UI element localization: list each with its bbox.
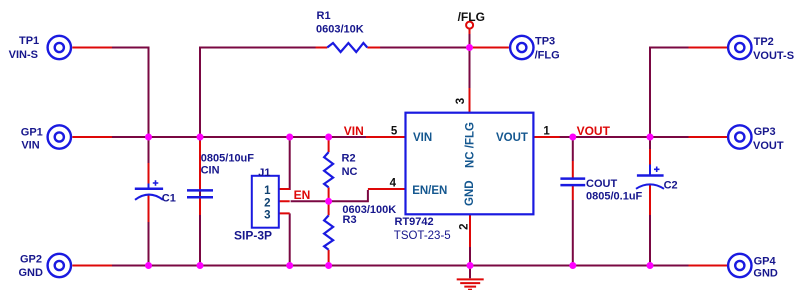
svg-text:0603/10K: 0603/10K bbox=[316, 24, 364, 36]
svg-text:TP2: TP2 bbox=[754, 36, 774, 48]
svg-text:/FLG: /FLG bbox=[535, 50, 560, 62]
svg-text:VOUT-S: VOUT-S bbox=[753, 50, 794, 62]
svg-text:VOUT: VOUT bbox=[753, 140, 784, 152]
svg-text:TSOT-23-5: TSOT-23-5 bbox=[394, 230, 451, 242]
svg-text:TP1: TP1 bbox=[19, 35, 39, 47]
svg-text:GP2: GP2 bbox=[20, 254, 42, 266]
svg-text:1: 1 bbox=[264, 185, 271, 197]
svg-text:3: 3 bbox=[264, 210, 270, 222]
svg-text:1: 1 bbox=[543, 126, 550, 138]
svg-text:VOUT: VOUT bbox=[496, 132, 528, 144]
svg-text:GP1: GP1 bbox=[21, 126, 43, 138]
svg-text:RT9742: RT9742 bbox=[395, 216, 434, 228]
svg-text:3: 3 bbox=[455, 98, 467, 104]
svg-text:2: 2 bbox=[459, 223, 471, 229]
svg-text:/FLG: /FLG bbox=[458, 10, 485, 24]
svg-text:5: 5 bbox=[391, 125, 398, 137]
svg-text:VIN: VIN bbox=[21, 140, 39, 152]
svg-text:4: 4 bbox=[390, 177, 397, 189]
svg-text:VOUT: VOUT bbox=[577, 124, 611, 138]
svg-text:0805/10uF: 0805/10uF bbox=[201, 152, 254, 164]
svg-text:2: 2 bbox=[264, 198, 270, 210]
svg-text:CIN: CIN bbox=[201, 165, 220, 177]
svg-text:VIN-S: VIN-S bbox=[9, 49, 38, 61]
svg-text:GND: GND bbox=[18, 267, 43, 279]
svg-text:R3: R3 bbox=[343, 214, 357, 226]
svg-text:SIP-3P: SIP-3P bbox=[234, 229, 272, 243]
svg-text:GND: GND bbox=[464, 180, 476, 206]
svg-text:TP3: TP3 bbox=[535, 35, 555, 47]
svg-text:R2: R2 bbox=[342, 153, 356, 165]
svg-text:J1: J1 bbox=[258, 167, 270, 179]
svg-text:GND: GND bbox=[753, 267, 778, 279]
svg-text:NC /FLG: NC /FLG bbox=[464, 122, 476, 168]
svg-text:EN/EN: EN/EN bbox=[412, 185, 447, 197]
svg-text:NC: NC bbox=[342, 166, 358, 178]
svg-text:0805/0.1uF: 0805/0.1uF bbox=[586, 190, 643, 202]
svg-text:GP3: GP3 bbox=[754, 126, 776, 138]
svg-text:COUT: COUT bbox=[586, 178, 617, 190]
svg-text:C2: C2 bbox=[664, 180, 678, 192]
svg-text:EN: EN bbox=[294, 188, 311, 202]
svg-text:GP4: GP4 bbox=[754, 255, 777, 267]
svg-text:R1: R1 bbox=[317, 10, 331, 22]
svg-text:C1: C1 bbox=[162, 192, 176, 204]
svg-text:VIN: VIN bbox=[413, 132, 432, 144]
svg-text:VIN: VIN bbox=[344, 124, 364, 138]
